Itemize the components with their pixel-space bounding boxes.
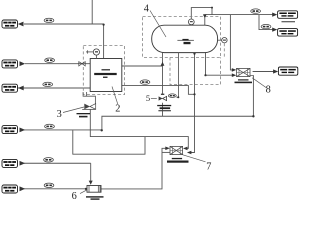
svg-text:3: 3 [57,109,62,120]
svg-text:6: 6 [72,191,77,200]
svg-text:8: 8 [266,85,271,96]
svg-text:2: 2 [115,104,120,115]
svg-text:7: 7 [206,161,211,172]
svg-text:4: 4 [144,4,149,15]
svg-text:5: 5 [146,93,150,103]
